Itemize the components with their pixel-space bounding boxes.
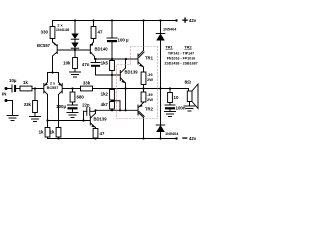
node 47n tap <box>94 58 96 60</box>
ground below 33k <box>30 116 41 118</box>
transistor Q5 BC557 diff left <box>43 84 45 94</box>
wire output/feedback line <box>93 88 189 90</box>
svg-text:47: 47 <box>98 30 103 35</box>
svg-text:1k2: 1k2 <box>101 92 109 97</box>
resistor .39 2W upper <box>141 72 146 85</box>
svg-text:4k7: 4k7 <box>101 102 109 107</box>
node 1k5 bottom joins <box>111 74 113 76</box>
svg-text:FN1016 - FP1016: FN1016 - FP1016 <box>167 57 196 61</box>
svg-text:10: 10 <box>174 95 179 100</box>
node left collector to VAS base <box>46 119 48 121</box>
svg-text:TIP142 - TIP147: TIP142 - TIP147 <box>168 52 194 56</box>
svg-text:100 µ: 100 µ <box>118 38 130 43</box>
node +42v rail end dot <box>175 19 177 21</box>
node rail junction at 100u column <box>111 19 113 21</box>
resistor 10 zobel <box>169 89 171 93</box>
capacitor 22p <box>83 111 85 120</box>
svg-text:1k: 1k <box>39 130 44 135</box>
svg-text:1N5404: 1N5404 <box>163 28 177 32</box>
svg-text:22p: 22p <box>82 103 90 108</box>
svg-text:330: 330 <box>41 30 49 35</box>
node rail junction at 47 resistor <box>92 19 94 21</box>
capacitor 47n <box>95 59 97 63</box>
node rail junction at diode bias column <box>74 19 76 21</box>
svg-text:2 x: 2 x <box>50 82 56 86</box>
svg-text:BD139: BD139 <box>125 70 139 75</box>
svg-text:33k: 33k <box>83 81 91 86</box>
resistor 1k5 <box>110 61 115 71</box>
node rail junction at TR2 collector <box>142 137 144 139</box>
resistor 10k <box>73 58 78 69</box>
capacitor 10u input <box>11 85 13 92</box>
svg-text:TR2: TR2 <box>145 107 154 112</box>
ground below 100u <box>67 112 78 114</box>
node VAS collector/22p <box>94 109 96 111</box>
svg-text:BD140: BD140 <box>95 47 109 52</box>
svg-text:BC557: BC557 <box>37 43 51 48</box>
resistor 47 upper <box>93 21 95 27</box>
svg-text:47: 47 <box>100 131 105 136</box>
svg-text:100n: 100n <box>176 106 186 111</box>
node diode bias junction <box>74 49 76 51</box>
ground below speaker <box>184 105 195 107</box>
wire +42V top rail <box>53 20 177 22</box>
ground below zobel <box>165 111 176 113</box>
transistor Q1 BC557 current source <box>53 42 58 46</box>
svg-text:BC557: BC557 <box>47 86 59 90</box>
resistor 47 lower (VAS emitter) <box>93 129 98 139</box>
heatsink dashed outline <box>117 47 158 119</box>
svg-text:TR1: TR1 <box>165 45 173 50</box>
node between 1k2 and 4k7 <box>111 100 113 102</box>
svg-text:1k: 1k <box>50 130 55 135</box>
node rail junction at 1N5404 column <box>159 19 161 21</box>
transistor TR2 <box>137 105 139 115</box>
transistor TR1 <box>137 54 139 64</box>
capacitor 100n zobel <box>165 104 175 106</box>
node tail center <box>51 71 53 73</box>
wire -42V bottom rail <box>48 138 177 140</box>
node 4k7 bottom on VAS line <box>111 109 113 111</box>
svg-text:1N5404: 1N5404 <box>165 132 179 136</box>
transistor Q2 BD140 current source <box>91 42 94 46</box>
diode D3 1N5404 upper <box>160 21 162 34</box>
resistor 330 <box>52 21 54 27</box>
resistor 33k input bias <box>34 89 36 101</box>
svg-text:BD139: BD139 <box>94 117 108 122</box>
svg-text:2W: 2W <box>147 77 153 82</box>
resistor 1k input <box>20 86 32 91</box>
svg-text:100µ: 100µ <box>56 104 66 109</box>
wire VAS base line from diff collector <box>48 120 91 122</box>
transistor Q6 BC557 diff right <box>61 84 63 94</box>
resistor 1k2 <box>111 75 113 90</box>
resistor 33k feedback <box>73 88 81 90</box>
svg-text:10µ: 10µ <box>9 78 17 83</box>
node 33k bias tap <box>34 87 36 89</box>
diode D2 1N4148 <box>74 39 76 42</box>
node rail junction at right 1k <box>57 137 59 139</box>
svg-text:2SD2438 - 2SB1687: 2SD2438 - 2SB1687 <box>164 62 197 66</box>
svg-text:TR2: TR2 <box>184 45 192 50</box>
svg-text:8Ω: 8Ω <box>185 80 192 86</box>
speaker LS 8ohm <box>188 89 190 92</box>
resistor 1k left load <box>45 128 50 138</box>
wire driver base line <box>96 74 121 76</box>
svg-text:IN: IN <box>2 92 6 97</box>
ground below 10k <box>70 71 81 73</box>
wire BD140 collector line <box>95 58 127 60</box>
label +42v <box>182 20 187 21</box>
capacitor 100u feedback <box>68 104 78 106</box>
svg-text:1k5: 1k5 <box>101 61 109 66</box>
svg-text:1N4148: 1N4148 <box>56 28 69 32</box>
svg-text:42v: 42v <box>189 136 197 141</box>
diode D4 1N5404 lower <box>160 89 162 126</box>
wire bend from mid node down to VAS line <box>112 100 120 102</box>
wire right base to feedback node <box>63 88 73 90</box>
svg-text:2W: 2W <box>147 97 153 102</box>
transistor Q4 BD139 VAS <box>89 116 91 125</box>
svg-text:680: 680 <box>77 95 85 100</box>
resistor 1k right load <box>56 128 61 138</box>
resistor .39 2W lower <box>143 89 145 93</box>
svg-text:TR1: TR1 <box>145 56 154 61</box>
transistor Q3 BD139 driver <box>119 71 121 81</box>
resistor 680 <box>72 89 74 93</box>
node output junction of emitter resistors <box>142 87 144 89</box>
svg-text:33k: 33k <box>24 102 32 107</box>
node driver emitter column on VAS line <box>124 109 126 111</box>
svg-text:10k: 10k <box>63 61 71 66</box>
capacitor 100u bootstrap <box>111 21 113 39</box>
label -42v <box>182 137 187 138</box>
node rail junction at 47 emitter resistor <box>94 137 96 139</box>
wire diff tail <box>48 72 59 74</box>
terminal input shield <box>5 99 8 102</box>
node zobel tap <box>169 87 171 89</box>
node TR1 base line junction <box>125 58 127 60</box>
wire TR1 base line <box>126 58 138 60</box>
terminal input IN <box>5 87 8 90</box>
diode D1 1N4148 <box>74 21 76 34</box>
svg-text:42v: 42v <box>189 18 197 23</box>
node feedback junction <box>71 87 73 89</box>
wire bias line to diodes <box>58 49 91 51</box>
node driver emitter on output line <box>124 87 126 89</box>
node rail junction at lower 1N5404 <box>159 137 161 139</box>
node 100u/1k5 column joins collector line <box>111 58 113 60</box>
node 22p on VAS base wire <box>82 119 84 121</box>
ground input shield <box>7 115 18 117</box>
node rail junction at TR1 collector <box>142 19 144 21</box>
svg-text:1k: 1k <box>23 80 28 85</box>
node -42v rail end dot <box>175 137 177 139</box>
wire VAS collector to TR2 base <box>96 109 138 111</box>
node diode column output <box>159 87 161 89</box>
resistor 4k7 <box>110 102 115 110</box>
svg-text:47n: 47n <box>82 62 90 67</box>
